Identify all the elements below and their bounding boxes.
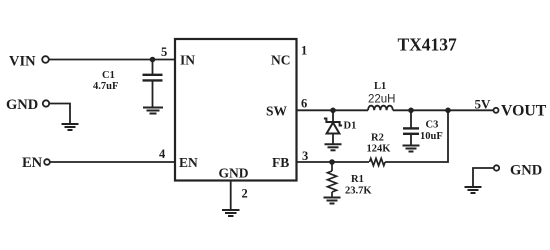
svg-text:GND: GND <box>510 163 542 179</box>
wire R2 to feedback corner <box>385 110 448 162</box>
ground under R1 <box>324 198 341 204</box>
svg-text:IN: IN <box>180 53 195 68</box>
ground under pin 2 <box>222 210 240 216</box>
diode D1 zener <box>324 110 342 144</box>
svg-text:TX4137: TX4137 <box>398 35 458 55</box>
svg-text:VIN: VIN <box>9 54 36 70</box>
terminal EN circle <box>44 159 50 165</box>
terminal GND right circle <box>494 165 499 170</box>
ground under D1 <box>325 144 342 150</box>
svg-text:D1: D1 <box>344 121 357 132</box>
inductor L1 <box>368 106 393 111</box>
svg-text:10uF: 10uF <box>420 131 443 142</box>
svg-text:1: 1 <box>301 44 307 58</box>
resistor R2 horizontal <box>370 158 386 165</box>
node FB feedback junction <box>445 108 451 114</box>
svg-text:R2: R2 <box>371 133 384 144</box>
wire L1 to VOUT <box>393 109 494 111</box>
node C3 junction <box>408 108 414 114</box>
svg-text:EN: EN <box>22 155 43 171</box>
node D1 junction <box>330 108 336 114</box>
svg-text:FB: FB <box>272 155 289 170</box>
svg-text:5: 5 <box>161 45 167 59</box>
svg-text:6: 6 <box>301 97 307 111</box>
svg-text:4.7uF: 4.7uF <box>93 81 118 92</box>
terminal GND left circle <box>43 100 49 106</box>
op-amp U1 (IC body TX4137) <box>175 39 297 181</box>
svg-text:2: 2 <box>242 187 248 201</box>
wire GND left <box>49 104 70 124</box>
svg-text:R1: R1 <box>351 174 364 185</box>
capacitor C1 <box>143 60 163 108</box>
wire SW pin 6 to L1 <box>297 109 369 111</box>
wire FB pin 3 to R2 <box>297 161 370 163</box>
svg-text:23.7K: 23.7K <box>345 186 372 197</box>
node R1 junction <box>329 159 335 165</box>
wire GND right <box>473 168 493 187</box>
svg-text:SW: SW <box>266 104 288 119</box>
node C1 junction <box>150 57 156 63</box>
terminal VIN circle <box>42 56 49 63</box>
capacitor C3 <box>403 110 419 145</box>
svg-text:124K: 124K <box>367 144 392 155</box>
svg-text:GND: GND <box>6 97 38 113</box>
svg-text:5V: 5V <box>475 97 492 112</box>
svg-text:4: 4 <box>159 147 166 161</box>
svg-text:22uH: 22uH <box>368 94 396 106</box>
svg-text:VOUT: VOUT <box>501 103 547 120</box>
wire VIN to pin 5 <box>49 59 175 61</box>
svg-text:C3: C3 <box>426 120 439 131</box>
svg-text:NC: NC <box>271 53 291 68</box>
svg-text:GND: GND <box>219 166 249 181</box>
resistor R1 vertical <box>328 162 337 197</box>
svg-text:L1: L1 <box>374 81 386 92</box>
ground under C3 <box>403 146 420 152</box>
ground under C1 <box>143 108 163 114</box>
ground left terminal <box>62 124 79 130</box>
svg-text:EN: EN <box>179 155 198 170</box>
pin 2 stub wire <box>230 181 232 210</box>
terminal VOUT circle <box>494 108 499 113</box>
svg-text:C1: C1 <box>102 70 115 81</box>
ground right terminal <box>465 187 482 193</box>
svg-text:3: 3 <box>302 149 308 163</box>
wire EN to pin 4 <box>50 161 175 163</box>
